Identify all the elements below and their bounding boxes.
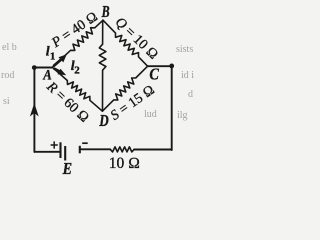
svg-text:rod: rod bbox=[1, 70, 14, 81]
svg-text:1: 1 bbox=[50, 50, 56, 62]
svg-text:id i: id i bbox=[181, 70, 194, 81]
battery plate 2 bbox=[64, 146, 66, 161]
svg-text:D: D bbox=[99, 111, 109, 130]
svg-text:B: B bbox=[101, 2, 110, 21]
resistor P (A to B) with zigzag bbox=[52, 20, 103, 67]
svg-text:E: E bbox=[62, 159, 72, 178]
svg-text:d: d bbox=[188, 89, 193, 100]
svg-text:el b: el b bbox=[2, 42, 17, 53]
current arrow on left wire (upward) bbox=[30, 103, 39, 117]
battery plate short negative bbox=[79, 146, 81, 154]
wire battery to 10-ohm resistor bbox=[80, 148, 111, 150]
wire A-dot to A-junction bbox=[34, 67, 52, 69]
resistor 10 ohm bbox=[110, 147, 134, 152]
wire left vertical bbox=[33, 68, 35, 152]
current arrow I2 on AD bbox=[54, 68, 60, 71]
svg-text:ilg: ilg bbox=[177, 110, 188, 121]
node A junction dot bbox=[32, 65, 37, 70]
svg-text:2: 2 bbox=[74, 64, 80, 76]
ghost print-through text (faint) bbox=[1, 42, 194, 121]
resistor Q (B to C) with zigzag bbox=[103, 20, 148, 66]
wire right vertical bbox=[171, 66, 173, 150]
battery plate long positive bbox=[59, 142, 61, 158]
svg-text:lud: lud bbox=[144, 109, 157, 120]
paper background bbox=[0, 0, 201, 187]
current arrow I1 on AB bbox=[53, 59, 61, 66]
resistor S (D to C) with zigzag bbox=[102, 66, 147, 111]
svg-text:A: A bbox=[42, 68, 51, 84]
svg-text:si: si bbox=[3, 96, 10, 107]
plus sign bbox=[51, 141, 58, 148]
minus sign bbox=[82, 142, 88, 144]
resistor G (B to D, galvanometer branch) with zigzag bbox=[99, 20, 106, 111]
wire C-junction to C-corner bbox=[148, 65, 172, 67]
svg-text:10 Ω: 10 Ω bbox=[109, 155, 140, 172]
svg-text:C: C bbox=[149, 65, 159, 84]
wire bottom-left to battery bbox=[34, 151, 60, 153]
node C corner dot bbox=[169, 64, 174, 69]
wire resistor to bottom-right corner bbox=[134, 149, 172, 151]
resistor R (A to D) with zigzag bbox=[52, 67, 102, 111]
svg-text:sists: sists bbox=[176, 44, 193, 55]
